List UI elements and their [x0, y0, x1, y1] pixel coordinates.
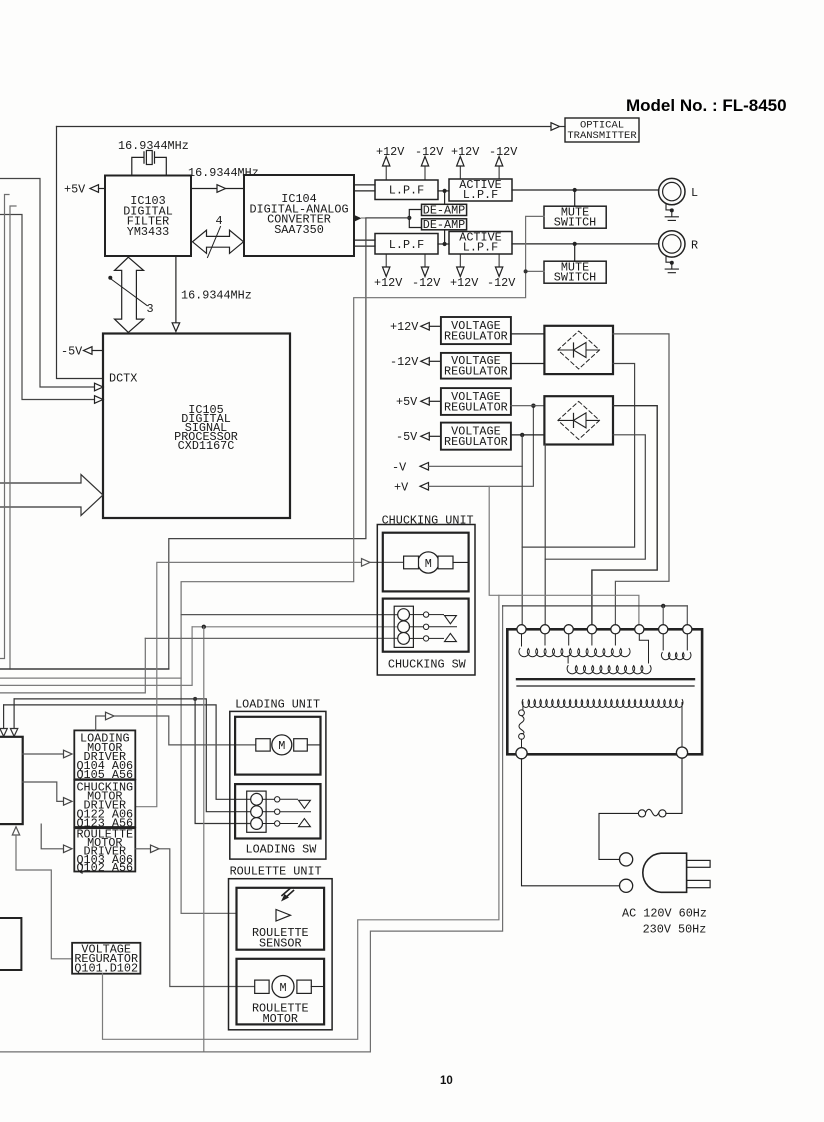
DE-AMP 1 — [422, 204, 467, 215]
svg-text:4: 4 — [216, 214, 223, 228]
voltage regulator -12V — [441, 353, 511, 379]
left edge stub wire 2 — [10, 206, 16, 669]
svg-text:LOADING UNIT: LOADING UNIT — [235, 698, 320, 712]
loading motor box — [235, 717, 320, 775]
bus arrow 3-bit IC103-IC105 — [115, 257, 144, 332]
loading SW contacts row1 — [263, 798, 275, 800]
terminal 3 — [564, 625, 573, 634]
wire C chucking driver to motor — [135, 562, 361, 806]
wire DCTX from top loop — [57, 127, 104, 379]
chucking SW row3 wire — [145, 637, 398, 639]
svg-text:-12V: -12V — [412, 276, 441, 290]
bridge rectifier D201 — [544, 326, 613, 374]
mute switch R — [544, 261, 606, 283]
svg-text:-12V: -12V — [489, 145, 518, 159]
IC104 DAC — [244, 175, 354, 256]
svg-text:-V: -V — [392, 461, 407, 475]
loading SW contacts row2 — [263, 811, 275, 813]
LPF L — [375, 180, 438, 200]
wire LPF L to active LPF — [438, 190, 449, 192]
primary right leg — [681, 703, 683, 747]
wire VR4 to bridge 2 — [511, 434, 545, 436]
roulette sensor box — [237, 888, 325, 950]
terminal 5 — [611, 625, 620, 634]
bus line L1 — [0, 668, 169, 670]
bus line L2 — [0, 677, 181, 679]
wire B deemphasis to bus — [0, 218, 409, 669]
bottom terminal left — [516, 748, 527, 759]
svg-text:REGULATOR: REGULATOR — [444, 365, 508, 379]
primary winding — [522, 700, 683, 708]
input wire 2 to IC105 — [0, 215, 95, 400]
svg-text:L: L — [691, 186, 698, 200]
svg-text:SAA7350: SAA7350 — [274, 223, 324, 237]
jack L — [659, 178, 685, 204]
clock wire IC103 to IC105 — [175, 256, 177, 323]
secondary winding row 1 — [519, 649, 630, 657]
wire mute tap L — [574, 190, 576, 206]
svg-text:Q102 A56: Q102 A56 — [76, 861, 133, 875]
slash and 4 label on bus — [208, 227, 221, 258]
IC104 output pairs to LPFs — [354, 185, 375, 246]
wire active LPF L to jack L — [512, 189, 659, 191]
voltage regulator +5V — [441, 388, 511, 415]
wire controller to loading driver — [23, 753, 64, 755]
voltage regulator -5V — [441, 423, 511, 450]
wire active LPF R to jack R — [512, 243, 659, 245]
svg-text:M: M — [278, 739, 285, 753]
loading unit outer box — [230, 711, 326, 859]
chucking SW row1 wire — [181, 614, 398, 616]
voltage regulator +12V — [441, 317, 511, 344]
roulette sensor photo element — [276, 910, 291, 922]
mute control loop wire — [181, 216, 544, 913]
chucking motor box — [383, 533, 469, 592]
loading motor driver Q104/Q105 — [74, 730, 135, 779]
mute switch L — [544, 206, 606, 228]
wire bridge2 lower to terminal 2 — [545, 435, 645, 631]
svg-text:-12V: -12V — [390, 355, 419, 369]
wire top loop to optical transmitter — [57, 126, 552, 128]
wire bottom-left terminal to plug — [522, 759, 620, 886]
svg-text:+12V: +12V — [450, 276, 479, 290]
jack R — [659, 231, 685, 257]
svg-text:Q101.D102: Q101.D102 — [74, 961, 138, 975]
svg-text:LOADING SW: LOADING SW — [246, 843, 318, 857]
arrowhead into optical transmitter — [551, 123, 560, 131]
big data bus arrow into IC105 — [0, 475, 103, 516]
wire fuse to plug — [599, 813, 638, 859]
chucking SW row2 wire — [192, 626, 398, 628]
jog terminal 6 to row 2 — [568, 634, 648, 663]
svg-text:REGULATOR: REGULATOR — [444, 330, 508, 344]
svg-text:SWITCH: SWITCH — [554, 270, 596, 284]
wire VR1 to bridge 1 — [511, 333, 545, 335]
chucking unit outer box — [377, 525, 475, 676]
chucking SW contacts row2 — [410, 626, 424, 628]
roulette motor M — [272, 976, 294, 998]
svg-text:10: 10 — [440, 1075, 453, 1087]
wire to voltage regurator — [16, 835, 72, 959]
svg-text:CXD1167C: CXD1167C — [178, 439, 235, 453]
chucking SW contacts row3 — [410, 637, 424, 639]
secondary winding row 2 — [567, 666, 651, 674]
svg-text:-12V: -12V — [415, 145, 444, 159]
svg-text:AC 120V 60Hz: AC 120V 60Hz — [622, 907, 707, 921]
wire regurator to transformer W1 — [103, 595, 499, 1039]
wire bridge1 upper to terminal 5 — [613, 334, 669, 630]
bus line L6 — [0, 638, 145, 693]
plug prong 1 — [687, 860, 711, 867]
svg-text:MOTOR: MOTOR — [263, 1012, 298, 1026]
loading driver output wire — [96, 716, 106, 730]
ground at jack R — [665, 256, 678, 273]
chucking SW contact block — [394, 606, 413, 647]
LPF R — [375, 234, 438, 255]
svg-text:CHUCKING SW: CHUCKING SW — [388, 658, 467, 672]
wire deemphasis control — [362, 217, 410, 219]
svg-text:DE-AMP: DE-AMP — [423, 218, 465, 232]
wire LPF R to active LPF — [438, 243, 449, 245]
svg-text:+12V: +12V — [390, 320, 419, 334]
roulette driver output wire — [135, 848, 150, 850]
chucking motor driver Q122/Q123 — [74, 780, 135, 827]
arrow L5 into controller — [3, 705, 5, 729]
IC104 deemphasis out arrow — [354, 215, 362, 222]
fuse F901 — [659, 810, 666, 817]
IC103 digital filter — [105, 176, 191, 257]
terminal 4 — [587, 625, 596, 634]
loading SW box — [235, 784, 320, 838]
wire bottom-right terminal to fuse — [666, 758, 682, 813]
svg-text:16.9344MHz: 16.9344MHz — [118, 139, 189, 153]
roulette motor box — [237, 959, 325, 1025]
small winding risers — [663, 634, 687, 650]
wire bridge2 upper to terminal 4 — [592, 406, 657, 631]
bus line L3 — [0, 627, 192, 686]
wire W2 transformer taps to left edge — [0, 606, 503, 1052]
svg-text:+V: +V — [394, 481, 409, 495]
AC plug P901 — [620, 853, 633, 866]
chucking SW box — [383, 599, 469, 652]
up arrow below controller — [12, 827, 19, 835]
svg-text:REGULATOR: REGULATOR — [444, 435, 508, 449]
svg-text:3: 3 — [147, 302, 154, 316]
loading motor M — [272, 735, 292, 755]
bus line L4 — [14, 699, 251, 812]
svg-text:16.9344MHz: 16.9344MHz — [188, 166, 259, 180]
loading SW contacts row3 — [263, 823, 275, 825]
wire terminals 7-8 common — [503, 605, 688, 607]
system controller box (cut) — [0, 737, 23, 824]
svg-text:-5V: -5V — [61, 345, 83, 359]
left edge stub wire 1 — [0, 195, 9, 659]
terminal 1 — [517, 625, 526, 634]
svg-text:CHUCKING UNIT: CHUCKING UNIT — [382, 514, 474, 528]
input wire 1 to IC105 — [0, 179, 95, 388]
svg-text:16.9344MHz: 16.9344MHz — [181, 289, 252, 303]
svg-text:M: M — [279, 981, 286, 995]
active LPF L — [449, 179, 512, 201]
loading SW contact block — [247, 791, 266, 832]
roulette unit outer box — [229, 879, 333, 1030]
branch from row2 down — [203, 627, 205, 1052]
svg-text:SWITCH: SWITCH — [554, 215, 596, 229]
arrow L4 into controller — [13, 699, 15, 729]
roulette motor driver Q103/Q102 — [74, 828, 135, 871]
winding row1 risers — [522, 634, 616, 646]
bus arrow 4-bit IC103-IC104 — [193, 230, 244, 253]
bottom terminal right — [676, 747, 687, 758]
active LPF R — [449, 232, 512, 255]
svg-text:-12V: -12V — [487, 276, 516, 290]
svg-text:L.P.F: L.P.F — [463, 188, 498, 202]
wire terminal 2 upper riser — [544, 445, 546, 560]
svg-text:DE-AMP: DE-AMP — [423, 203, 465, 217]
svg-text:+12V: +12V — [374, 276, 403, 290]
terminal 7 — [659, 625, 668, 634]
plug prong 2 — [687, 880, 711, 887]
svg-text:Model No. : FL-8450: Model No. : FL-8450 — [626, 96, 787, 115]
bus line L5 — [4, 705, 251, 799]
wire terminal 6 line — [489, 486, 639, 630]
slash and 3 label on bus — [108, 276, 112, 280]
IC105 DSP — [103, 334, 290, 519]
svg-text:+12V: +12V — [376, 145, 405, 159]
terminal 6 — [635, 625, 644, 634]
DE-AMP 2 — [422, 219, 467, 230]
voltage regurator Q101.D102 — [72, 943, 140, 974]
chucking motor M — [418, 552, 439, 573]
thermal fuse left leg — [522, 702, 524, 710]
svg-text:L.P.F: L.P.F — [389, 238, 424, 252]
terminal 2 — [540, 625, 549, 634]
terminal 8 riser — [686, 606, 688, 626]
wire VR2 to bridge 1 — [511, 363, 545, 365]
svg-text:L.P.F: L.P.F — [463, 240, 498, 254]
clock out wire IC103 to IC104 — [191, 188, 217, 190]
svg-text:+5V: +5V — [64, 183, 86, 197]
svg-text:-5V: -5V — [396, 430, 418, 444]
ground at jack L — [665, 204, 678, 221]
DE-AMP input link — [409, 210, 421, 228]
wire terminal 1 riser — [521, 435, 523, 630]
power transformer T901 body — [507, 629, 702, 754]
svg-text:REGULATOR: REGULATOR — [444, 400, 508, 414]
wire VR3 to bridge 2 — [511, 405, 545, 407]
svg-text:TRANSMITTER: TRANSMITTER — [567, 130, 637, 142]
chucking SW contacts row1 — [410, 614, 424, 616]
svg-text:ROULETTE UNIT: ROULETTE UNIT — [230, 865, 322, 879]
terminal 7 riser — [662, 606, 664, 626]
svg-text:DCTX: DCTX — [109, 372, 137, 386]
wire bridge1 lower to terminal 1 — [522, 364, 634, 548]
svg-text:+12V: +12V — [451, 145, 480, 159]
svg-text:M: M — [425, 557, 432, 571]
small board box (cut) — [0, 918, 21, 970]
svg-text:+5V: +5V — [396, 395, 418, 409]
svg-text:YM3433: YM3433 — [127, 225, 169, 239]
wire controller to roulette driver — [41, 824, 63, 849]
roulette sensor arrows — [284, 891, 294, 900]
crystal X101 — [132, 152, 167, 176]
svg-text:L.P.F: L.P.F — [389, 184, 424, 198]
core lines — [517, 678, 694, 680]
bridge rectifier D202 — [544, 396, 613, 444]
wire mute tap R — [574, 244, 576, 261]
svg-text:SENSOR: SENSOR — [259, 937, 301, 951]
svg-text:R: R — [691, 239, 698, 253]
wire controller to chucking driver — [23, 782, 64, 801]
small winding right — [661, 653, 691, 660]
mute R stub — [526, 270, 544, 272]
arrow into chucking motor — [362, 559, 371, 567]
loading SW row3 branch — [193, 697, 197, 701]
optical transmitter U201 — [565, 118, 639, 142]
svg-text:230V 50Hz: 230V 50Hz — [643, 923, 707, 937]
terminal 8 — [683, 625, 692, 634]
